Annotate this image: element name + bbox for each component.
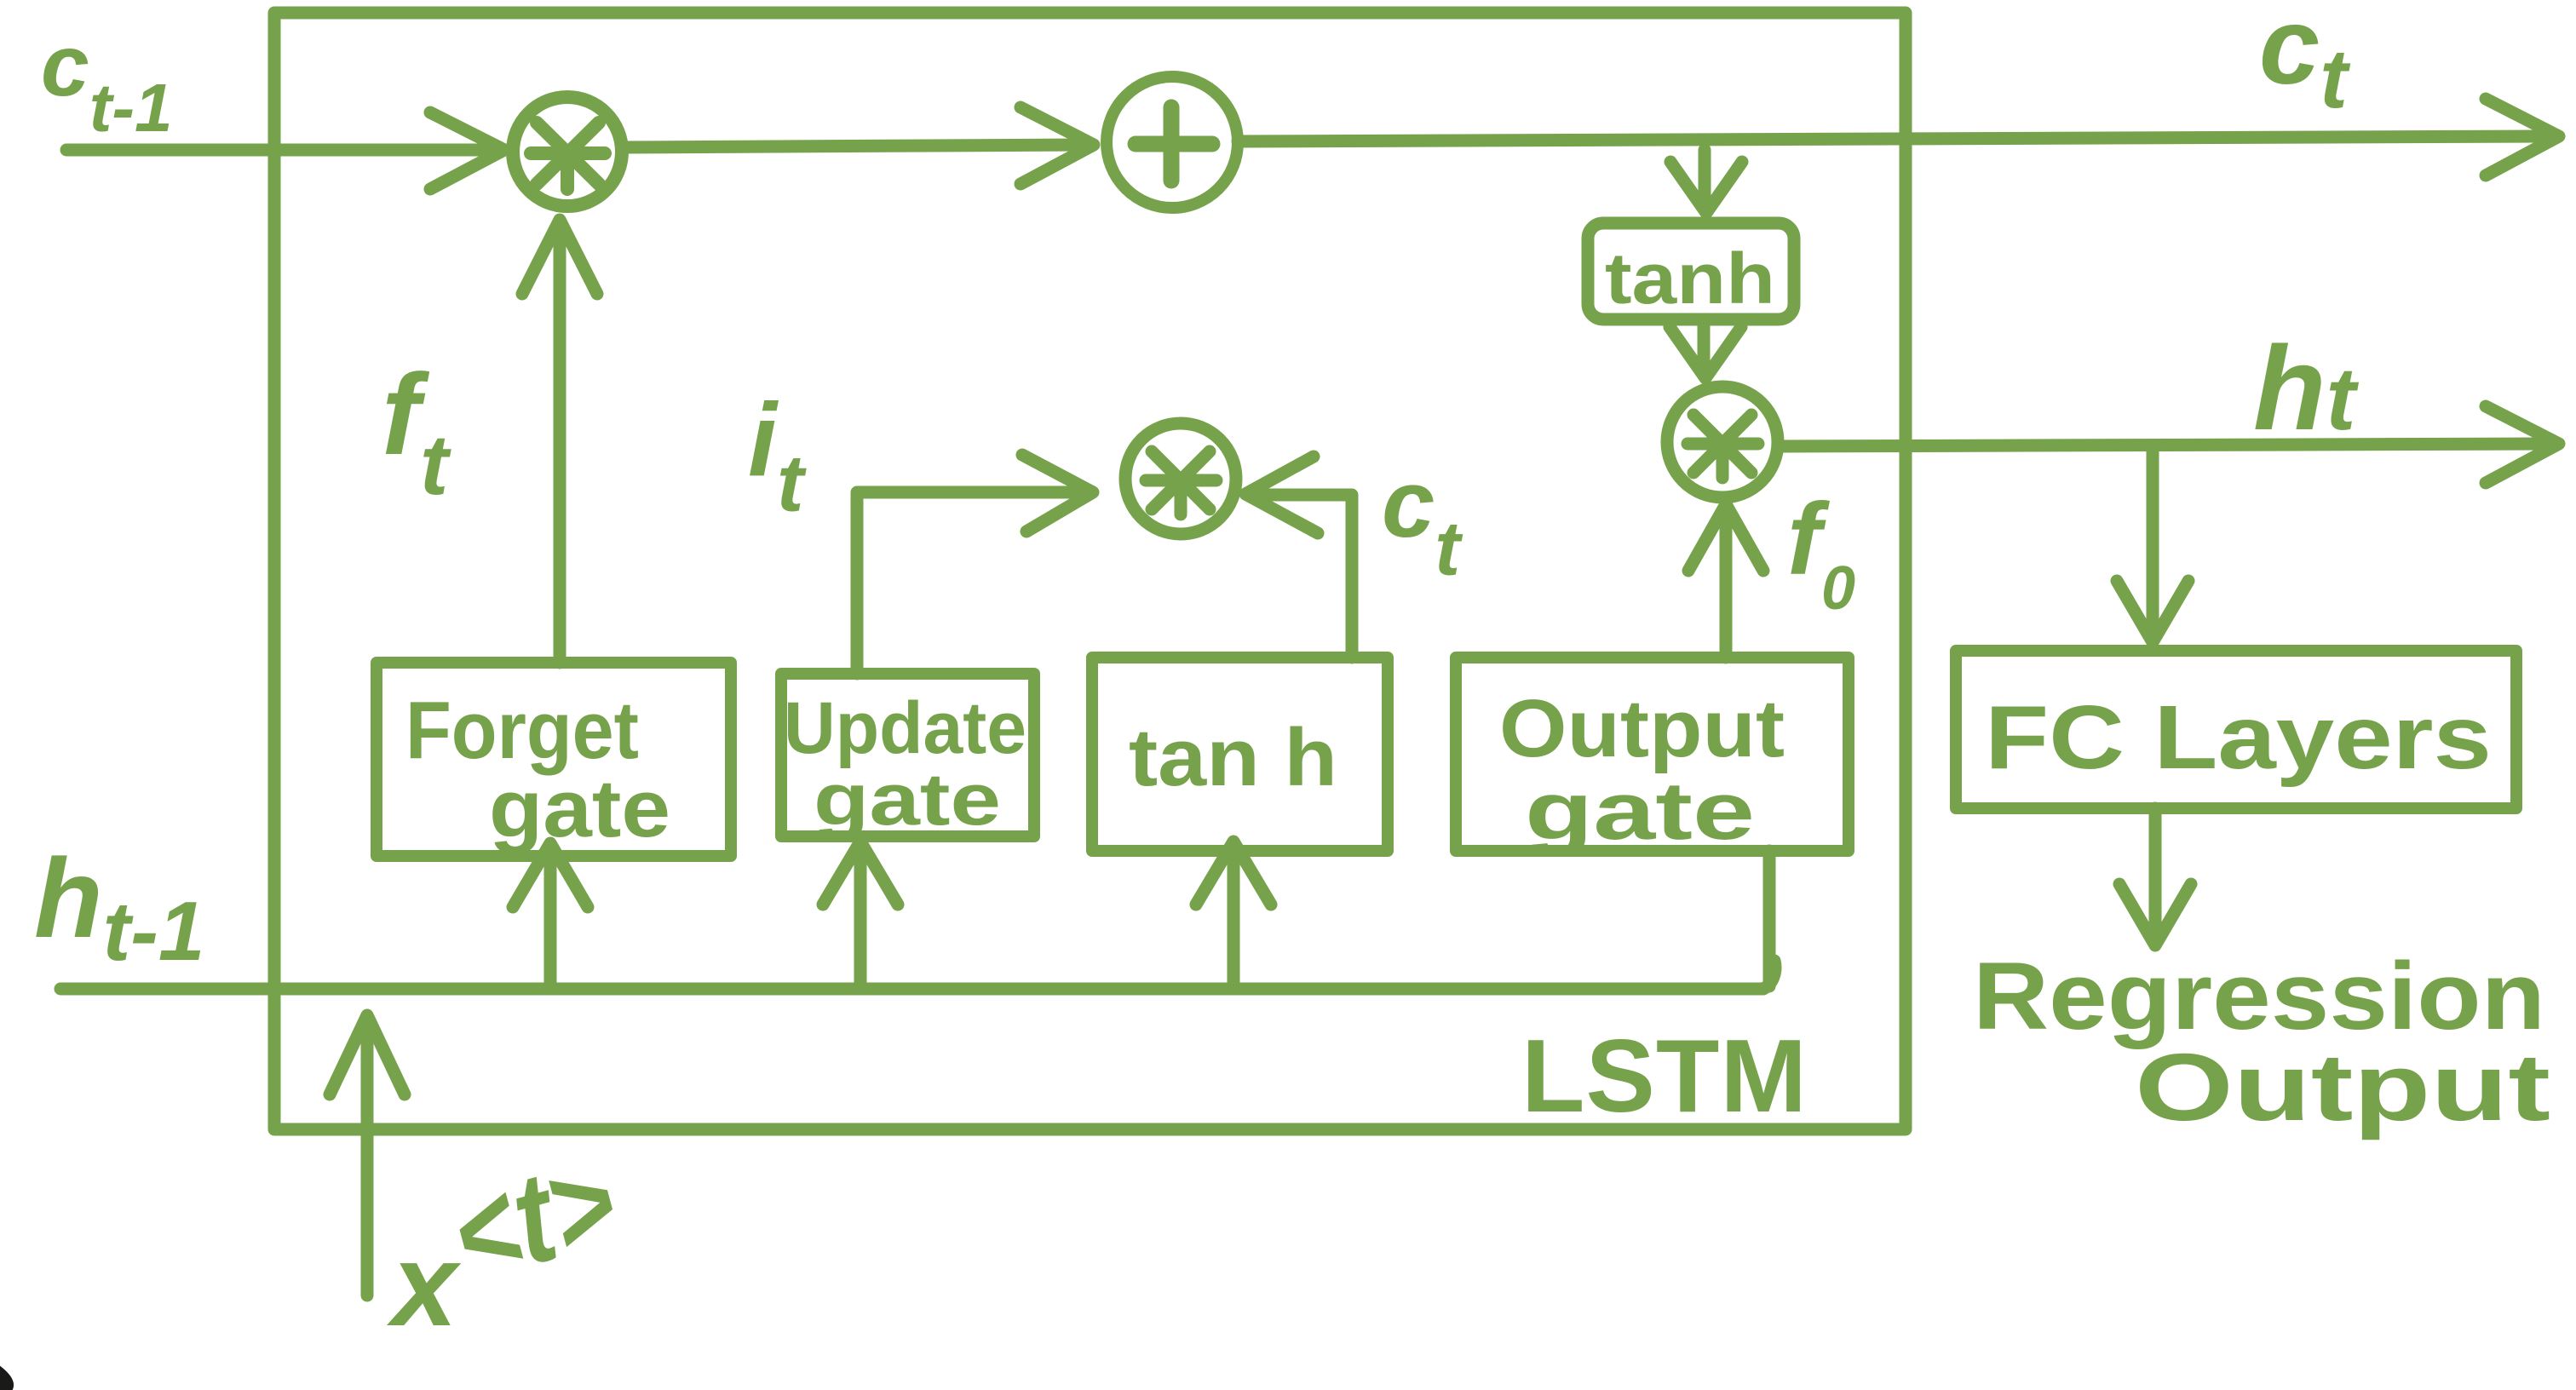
wire h_t from M3 to right edge	[1780, 444, 2547, 446]
arrowhead h_t output	[2486, 406, 2559, 483]
svg-text:ht: ht	[2253, 321, 2360, 455]
wire down from c line into tanh pill	[1699, 150, 1711, 204]
wire c_t-1 horizontal	[66, 144, 491, 157]
svg-text:it: it	[748, 382, 807, 529]
wire f_t vertical into M1	[554, 223, 566, 663]
output gate box	[1456, 658, 1849, 851]
svg-text:FC Layers: FC Layers	[1985, 687, 2492, 788]
tanh pill box	[1588, 223, 1794, 319]
wire branch down to FC layers	[2147, 446, 2159, 632]
svg-text:<t>: <t>	[437, 1128, 630, 1307]
wire up into tanh box	[1228, 850, 1240, 989]
add node circle	[1107, 77, 1238, 208]
svg-text:ct: ct	[2259, 0, 2350, 125]
wire h_t-1 horizontal	[60, 961, 1775, 989]
wire f_o vertical from output gate into M3	[1720, 511, 1733, 658]
wire add node to c_t output	[1238, 136, 2547, 141]
svg-text:gate: gate	[1525, 766, 1755, 857]
svg-text:gate: gate	[814, 759, 1001, 841]
wire up into forget gate	[544, 853, 557, 989]
svg-text:Forget: Forget	[405, 685, 639, 776]
arrowhead f_t into M1	[522, 220, 597, 294]
arrowhead to regression output	[2119, 884, 2191, 945]
svg-text:LSTM: LSTM	[1521, 1018, 1807, 1134]
FC layers box	[1956, 651, 2516, 808]
arrowhead x input	[330, 1015, 405, 1094]
LSTM outer box	[274, 13, 1906, 1129]
svg-text:Output: Output	[1499, 683, 1785, 774]
arrowhead into M3	[1670, 327, 1741, 378]
wire tanh pill to multiply node M3	[1698, 319, 1711, 368]
wire c~_t from tanh box to M2	[1259, 495, 1352, 658]
arrowhead c~_t into M2 (points left)	[1245, 457, 1318, 533]
wire i_t from update gate to multiply node M2	[857, 492, 1080, 674]
wire up into update gate	[854, 843, 867, 989]
svg-text:Output: Output	[2135, 1034, 2550, 1140]
corner pen mark	[0, 1361, 14, 1390]
multiply node M1 asterisk	[531, 123, 605, 189]
add node plus	[1136, 107, 1212, 181]
arrowhead into multiply node M1	[430, 112, 504, 189]
multiply node M3 circle	[1667, 387, 1778, 497]
update gate box	[781, 674, 1034, 836]
arrowhead i_t into M2	[1022, 455, 1093, 531]
svg-text:ft: ft	[382, 350, 451, 513]
svg-text:ht-1: ht-1	[34, 836, 204, 978]
arrowhead into forget gate	[513, 843, 588, 907]
arrowhead into add node	[1021, 107, 1094, 184]
svg-text:ct-1: ct-1	[41, 17, 173, 146]
svg-text:tan h: tan h	[1129, 712, 1337, 803]
wire x input vertical	[361, 1022, 374, 1295]
svg-text:f0: f0	[1787, 482, 1855, 623]
arrowhead c_t output	[2486, 99, 2559, 175]
arrowhead into tanh pill	[1670, 162, 1742, 213]
arrowhead into update gate	[823, 841, 898, 905]
arrowhead f_o into M3	[1688, 504, 1763, 571]
forget gate box	[377, 663, 731, 856]
multiply node M3 asterisk	[1688, 415, 1758, 478]
wire FC layers down to regression output	[2149, 808, 2162, 935]
multiply node M2 circle	[1125, 423, 1236, 534]
svg-text:tanh: tanh	[1605, 238, 1775, 319]
arrowhead into FC layers box	[2117, 581, 2188, 642]
svg-text:x: x	[386, 1220, 462, 1351]
multiply node M1 circle	[513, 97, 622, 206]
tanh box (middle)	[1092, 658, 1388, 851]
wire output gate bottom connector	[1763, 851, 1776, 986]
arrowhead into tanh box	[1196, 841, 1271, 905]
svg-text:Update: Update	[784, 687, 1026, 769]
svg-text:ct: ct	[1382, 451, 1463, 592]
svg-text:gate: gate	[489, 763, 670, 854]
multiply node M2 asterisk	[1146, 451, 1216, 514]
wire M1 to add node	[624, 145, 1082, 147]
